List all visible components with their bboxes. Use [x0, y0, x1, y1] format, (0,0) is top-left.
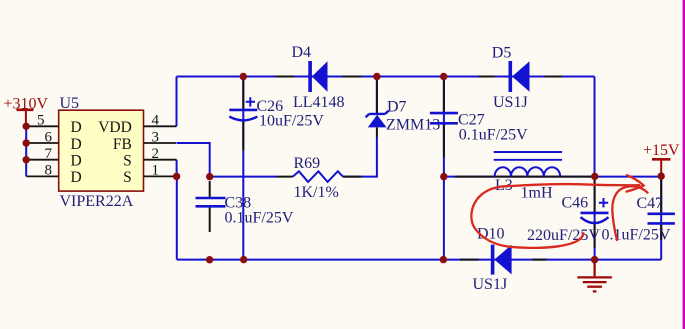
- wire: VDD riser to pin 4: [176, 77, 178, 127]
- sheet border (right magenta edge): [683, 0, 685, 329]
- junction D7 top: [373, 73, 380, 80]
- pin: C27 leads: [443, 80, 445, 157]
- junction FB / C38 / R69: [206, 173, 213, 180]
- annotation: red hook down to C47 value: [612, 186, 647, 240]
- junction ground / C46 bottom: [591, 256, 598, 263]
- annotation: red tail line to arrow: [506, 184, 639, 186]
- resistor R69 1K/1%: [293, 155, 343, 201]
- junction switch rail drop: [440, 256, 447, 263]
- pin 8 (D): [26, 163, 81, 187]
- svg-text:LL4148: LL4148: [293, 94, 345, 111]
- junction C26 bottom: [240, 256, 247, 263]
- svg-text:0.1uF/25V: 0.1uF/25V: [602, 226, 671, 243]
- svg-text:10uF/25V: 10uF/25V: [259, 113, 324, 130]
- junction C38 bottom: [206, 256, 213, 263]
- pin: D5 leads: [478, 76, 562, 78]
- svg-text:220uF/25V: 220uF/25V: [527, 227, 600, 244]
- wire: source node down to bottom rail: [176, 176, 178, 259]
- svg-text:R69: R69: [294, 155, 321, 172]
- pin 1 (S): [123, 163, 176, 187]
- junction L3 right / D5 / C46: [591, 173, 598, 180]
- svg-text:US1J: US1J: [493, 94, 528, 111]
- svg-text:S: S: [123, 169, 132, 186]
- junction C27 top / D5 anode: [440, 73, 447, 80]
- svg-text:ZMM13: ZMM13: [386, 116, 440, 133]
- power +310V: [4, 95, 49, 126]
- capacitor C26 10uF/25V (polarized): [229, 97, 324, 129]
- svg-text:7: 7: [45, 146, 53, 162]
- svg-text:D: D: [71, 169, 82, 186]
- wire: bottom rail (freewheel/ground): [177, 259, 661, 261]
- svg-text:D: D: [71, 153, 82, 170]
- pin: D10 leads: [460, 259, 547, 261]
- pin: D4 leads: [276, 76, 361, 78]
- svg-text:1mH: 1mH: [521, 185, 553, 202]
- junction C27 bottom / L3 left: [440, 173, 447, 180]
- svg-text:3: 3: [152, 129, 160, 145]
- op chip U5 VIPER22A body: [59, 95, 144, 210]
- pin: C38 leads: [209, 181, 211, 232]
- junction pin6: [23, 139, 30, 146]
- capacitor C47 0.1uF/25V: [602, 195, 675, 244]
- diode D5 US1J: [492, 44, 530, 111]
- junction +15V / C47 top: [658, 172, 665, 179]
- wire: C47 branch vertical: [660, 176, 662, 260]
- wire: C27 branch vertical: [443, 77, 445, 260]
- junction C26 top: [240, 73, 247, 80]
- wire: top rail (rectified node): [177, 76, 595, 78]
- svg-text:0.1uF/25V: 0.1uF/25V: [225, 209, 294, 226]
- annotation: red lasso loop around D10/C46: [471, 186, 583, 248]
- pin 3 (FB): [113, 129, 176, 153]
- svg-text:C47: C47: [637, 195, 664, 212]
- wire: pin 2 down to pin 1: [176, 160, 178, 177]
- zener D7 ZMM13: [366, 99, 441, 134]
- svg-text:D: D: [71, 119, 82, 136]
- svg-text:D4: D4: [292, 44, 312, 61]
- diode D10 US1J: [473, 226, 512, 293]
- wire: C46 branch vertical: [594, 177, 596, 260]
- wire: C26 branch vertical: [242, 77, 244, 260]
- wire: FB pin 3 to C38 node: [177, 143, 210, 177]
- black pin segments on rails: [210, 77, 662, 260]
- pin 5 (D): [26, 113, 81, 137]
- pin: D7 leads: [376, 80, 378, 137]
- svg-text:C46: C46: [562, 194, 589, 211]
- junction pins 1-2 source: [173, 173, 180, 180]
- pin: R69 leads: [277, 176, 362, 178]
- pin 7 (D): [26, 146, 81, 170]
- wire: D5 cathode drop: [594, 77, 596, 177]
- svg-text:D7: D7: [387, 99, 407, 116]
- power +15V: [643, 142, 680, 176]
- svg-text:D: D: [71, 136, 82, 153]
- svg-text:U5: U5: [60, 95, 80, 112]
- pin: C26 leads: [242, 80, 244, 150]
- svg-text:4: 4: [152, 113, 160, 129]
- svg-text:+15V: +15V: [643, 142, 680, 159]
- annotation: red arrowhead: [627, 175, 644, 191]
- junction pin5: [23, 123, 30, 130]
- pin 2 (S): [123, 146, 176, 170]
- wire: switch rail to L3: [444, 176, 661, 178]
- capacitor C27 0.1uF/25V: [430, 112, 528, 144]
- svg-text:8: 8: [45, 163, 53, 179]
- svg-text:FB: FB: [113, 136, 132, 153]
- wire: D7 branch vertical: [376, 77, 378, 114]
- svg-text:US1J: US1J: [473, 276, 508, 293]
- junction pin7: [23, 156, 30, 163]
- pin: C46 leads: [594, 180, 596, 248]
- svg-text:VIPER22A: VIPER22A: [60, 193, 134, 210]
- pin 4 (VDD): [98, 113, 176, 137]
- svg-text:1K/1%: 1K/1%: [294, 184, 339, 201]
- wire: FB rail to R69 and D7: [210, 176, 277, 178]
- svg-text:5: 5: [37, 113, 45, 129]
- pin: C47 leads: [660, 179, 662, 240]
- ground: [577, 260, 612, 292]
- pin 6 (D): [26, 129, 81, 153]
- capacitor C46 220uF/25V (polarized): [527, 194, 609, 244]
- svg-text:1: 1: [152, 163, 160, 179]
- wire: R69 right to D7 anode: [343, 137, 377, 177]
- pin: L3 leads: [455, 176, 591, 178]
- svg-text:0.1uF/25V: 0.1uF/25V: [459, 127, 528, 144]
- capacitor C38 0.1uF/25V: [196, 194, 294, 226]
- diode D4 LL4148: [292, 44, 345, 111]
- svg-text:S: S: [123, 153, 132, 170]
- wire: +310V bus down pins 5-8: [25, 126, 27, 176]
- inductor L3 1mH: [494, 152, 562, 202]
- svg-text:VDD: VDD: [98, 119, 132, 136]
- svg-text:6: 6: [45, 129, 53, 145]
- svg-text:2: 2: [152, 146, 160, 162]
- svg-text:D5: D5: [492, 44, 512, 61]
